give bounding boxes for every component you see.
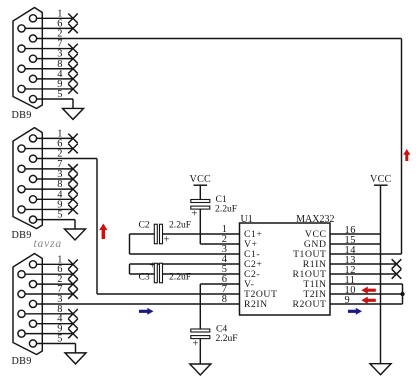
svg-text:+: +: [192, 209, 198, 220]
svg-text:DB9: DB9: [12, 356, 32, 367]
J2 pin 2 circle: [29, 155, 36, 162]
J3 pin 6 circle: [18, 271, 25, 278]
wire J1 pin2 to right rail (node TXD1): [37, 38, 402, 40]
no-connect X on J3 pin 1: [68, 260, 78, 270]
blue arrow out of R2OUT: [348, 308, 362, 315]
wire U1 pin15 GND to rail: [330, 243, 381, 245]
J2 pin 4 circle: [29, 196, 36, 203]
svg-text:VCC: VCC: [190, 174, 212, 185]
no-connect X on J1 pin 6: [68, 24, 78, 34]
wire J2 pin 5 to ground: [37, 219, 75, 221]
wire J2 pin 9 (n.c.): [25, 208, 73, 210]
red arrow (signal up) on right rail: [403, 149, 410, 161]
no-connect X on J2 pin 6: [68, 144, 78, 154]
J3 pin 5 circle: [29, 340, 36, 347]
wire U1 pin6 V-: [200, 283, 239, 285]
wire J2 pin 3 (n.c.): [37, 178, 73, 180]
wire U1 pin10 T2IN: [330, 293, 403, 295]
no-connect X on J3 pin 4: [68, 319, 78, 329]
no-connect X on J2 pin 8: [68, 184, 78, 194]
J1 pin 1 circle: [29, 15, 36, 22]
no-connect X on J3 pin 8: [68, 309, 78, 319]
svg-text:DB9: DB9: [12, 110, 32, 121]
no-connect X on pin13: [392, 259, 402, 269]
ground symbol J1: [63, 108, 84, 119]
svg-text:VCC: VCC: [370, 174, 392, 185]
svg-text:2.2uF: 2.2uF: [169, 272, 191, 283]
capacitor C1: [191, 200, 210, 203]
ground symbol below C4: [190, 364, 211, 375]
wire J3 pin 4 (n.c.): [37, 323, 73, 325]
right vertical rail: [380, 185, 382, 364]
svg-text:DB9: DB9: [12, 230, 32, 241]
no-connect X on J2 pin 9: [68, 205, 78, 215]
wire J2 pin 1 (n.c.): [37, 137, 73, 139]
wire J1 pin 7 (n.c.): [25, 48, 73, 50]
no-connect X on J1 pin 3: [68, 54, 78, 64]
wire U1 pin12 R1OUT (n.c.): [330, 273, 397, 275]
wire J1 pin 5 to ground: [37, 98, 73, 100]
wire U1 pin11 T1IN loopback: [330, 283, 403, 285]
no-connect X on J1 pin 8: [68, 64, 78, 74]
J1 pin 5 circle: [29, 95, 36, 102]
no-connect X on pin12: [392, 269, 402, 279]
no-connect X on J2 pin 7: [68, 164, 78, 174]
J1 pin 7 circle: [18, 45, 25, 52]
wire J2 pin 4 (n.c.): [37, 198, 73, 200]
no-connect X on J1 pin 9: [68, 84, 78, 94]
J1 pin 8 circle: [18, 65, 25, 72]
wire J2 pin 7 (n.c.): [25, 168, 73, 170]
no-connect X on J2 pin 1: [68, 134, 78, 144]
red arrow (signal up) on J2 wire: [99, 224, 107, 240]
no-connect X on J1 pin 1: [68, 14, 78, 24]
wire J1 pin 8 (n.c.): [25, 68, 73, 70]
wire J3 pin 5 to ground: [37, 343, 76, 345]
J2 pin 1 circle: [29, 135, 36, 142]
J3 pin 1 circle: [29, 261, 36, 268]
svg-text:+: +: [150, 261, 156, 272]
J2 pin 9 circle: [18, 206, 25, 213]
wire J1 pin 1 (n.c.): [37, 17, 73, 19]
wire J3 pin 9 (n.c.): [25, 333, 73, 335]
wire J1 pin 6 (n.c.): [25, 27, 73, 29]
no-connect X on J3 pin 9: [68, 329, 78, 339]
no-connect X on J3 pin 7: [68, 289, 78, 299]
wire J3 pin 2 (n.c.): [37, 283, 73, 285]
wire J1 pin 9 (n.c.): [25, 88, 73, 90]
wire U1 pin8 R2IN from J3 pin3: [37, 303, 240, 305]
wire U1 pin7 T2OUT from J2: [97, 293, 240, 295]
svg-text:+: +: [193, 339, 199, 350]
blue arrow (signal right) on R2IN wire: [139, 308, 154, 315]
svg-text:U1: U1: [241, 214, 253, 225]
wire U1 pin1 C1+: [163, 233, 240, 235]
svg-text:+: +: [164, 235, 170, 246]
wire J3 pin 8 (n.c.): [25, 313, 73, 315]
no-connect X on J1 pin 4: [68, 74, 78, 84]
wire U1 pin5 C2-: [163, 273, 240, 275]
J3 pin 8 circle: [18, 310, 25, 317]
wire J2 pin 8 (n.c.): [25, 188, 73, 190]
wire U1 pin13 R1IN (n.c.): [330, 263, 397, 265]
capacitor C2: [154, 224, 157, 244]
J3 pin 2 circle: [29, 281, 36, 288]
red arrow into T2IN: [361, 287, 376, 294]
connector J1 DB9 body: [13, 8, 42, 109]
no-connect X on J1 pin 7: [68, 44, 78, 54]
wire J3 pin 7 (n.c.): [25, 293, 73, 295]
wire J2 pin 6 (n.c.): [25, 148, 73, 150]
svg-text:R2OUT: R2OUT: [293, 299, 327, 310]
ground symbol right rail: [370, 364, 391, 375]
svg-text:C2: C2: [139, 220, 150, 231]
J1 pin 3 circle: [29, 55, 36, 62]
svg-text:2.2uF: 2.2uF: [169, 220, 191, 231]
J3 pin 9 circle: [18, 330, 25, 337]
J1 pin 4 circle: [29, 75, 36, 82]
op-amp U1 MAX232 box: [240, 223, 331, 315]
wire C2 left to pin3 loop: [130, 233, 155, 235]
ground symbol J2: [65, 229, 86, 240]
wire U1 pin4 C2+: [130, 263, 240, 265]
no-connect X on J3 pin 2: [68, 279, 78, 289]
J2 pin 8 circle: [18, 186, 25, 193]
junction dot T2IN node: [400, 292, 404, 296]
no-connect X on J2 pin 4: [68, 195, 78, 205]
svg-text:tavza: tavza: [34, 237, 62, 250]
J1 pin 6 circle: [18, 25, 25, 32]
svg-text:MAX232: MAX232: [296, 214, 334, 225]
svg-text:2.2uF: 2.2uF: [216, 333, 238, 344]
J3 pin 7 circle: [18, 290, 25, 297]
wire J1 pin 4 (n.c.): [37, 78, 73, 80]
wire J3 pin 1 (n.c.): [37, 263, 73, 265]
J2 pin 5 circle: [29, 216, 36, 223]
wire U1 pin9 R2OUT: [330, 303, 403, 305]
capacitor C3: [154, 263, 157, 283]
J3 pin 3 circle: [29, 300, 36, 307]
wire pin4 to C3 loop: [129, 264, 131, 274]
wire V- down to C4: [199, 284, 201, 329]
wire VCC to C1: [199, 185, 201, 199]
wire U1 pin14 T1OUT to J1 pin2: [330, 253, 402, 255]
wire C1 to U1 pin2 V+: [199, 209, 201, 244]
no-connect X on J3 pin 6: [68, 269, 78, 279]
svg-text:2.2uF: 2.2uF: [215, 204, 237, 215]
ground symbol J3: [65, 353, 86, 364]
red arrow into R2OUT: [361, 297, 376, 304]
J2 pin 3 circle: [29, 175, 36, 182]
capacitor C4: [191, 329, 210, 332]
svg-text:C3: C3: [139, 272, 150, 283]
J2 pin 7 circle: [18, 165, 25, 172]
wire J1 pin 3 (n.c.): [37, 58, 73, 60]
wire C4 to ground: [199, 338, 201, 364]
wire U1 pin3 C1-: [130, 253, 240, 255]
J1 pin 9 circle: [18, 85, 25, 92]
connector J2 DB9 body: [13, 128, 42, 229]
J1 pin 2 circle: [29, 35, 36, 42]
connector J3 DB9 body: [13, 254, 42, 355]
no-connect X on J2 pin 3: [68, 174, 78, 184]
wire U1 pin16 VCC to rail: [330, 233, 381, 235]
wire J2 pin2 down to T2OUT: [37, 158, 97, 160]
svg-text:R2IN: R2IN: [244, 299, 268, 310]
wire J3 pin 6 (n.c.): [25, 273, 73, 275]
J3 pin 4 circle: [29, 320, 36, 327]
J2 pin 6 circle: [18, 145, 25, 152]
